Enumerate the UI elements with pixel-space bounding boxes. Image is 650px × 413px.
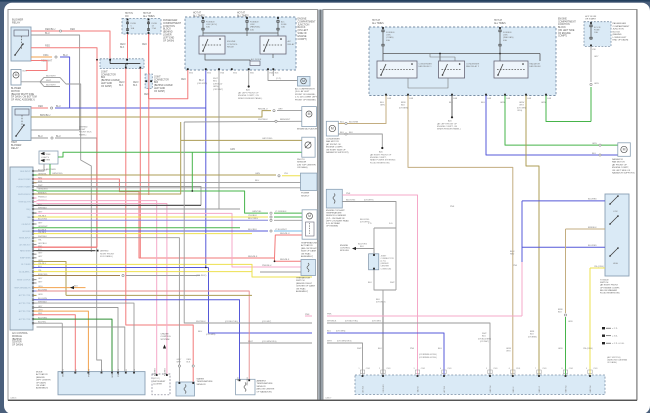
svg-text:CAB06: CAB06 <box>10 397 17 400</box>
svg-text:GRN): GRN) <box>213 86 219 88</box>
svg-text:ON HVAC: ON HVAC <box>36 384 46 387</box>
svg-text:HOT AT: HOT AT <box>193 12 202 15</box>
svg-text:ORG: ORG <box>519 105 524 107</box>
svg-text:THERMISTOR: THERMISTOR <box>296 278 311 280</box>
svg-text:GRN: GRN <box>541 102 546 104</box>
svg-text:C101: C101 <box>421 368 425 370</box>
svg-text:KICK PANEL): KICK PANEL) <box>100 255 113 258</box>
svg-text:BLU: BLU <box>255 180 260 182</box>
svg-text:ACTTR CTRL: ACTTR CTRL <box>19 318 31 321</box>
svg-text:FAN RELAY 2: FAN RELAY 2 <box>466 65 480 68</box>
svg-text:RED/BLK: RED/BLK <box>280 259 290 261</box>
svg-text:INNER FENDER PANEL): INNER FENDER PANEL) <box>238 97 263 100</box>
svg-text:RED: RED <box>181 79 186 81</box>
svg-text:ENGINE: ENGINE <box>227 41 236 43</box>
svg-text:HIGH: HIGH <box>613 263 619 265</box>
svg-text:MODULE: MODULE <box>340 250 350 252</box>
svg-text:ALL TIMES: ALL TIMES <box>237 14 249 17</box>
svg-text:CONDENSER: CONDENSER <box>326 139 340 141</box>
svg-text:M: M <box>308 112 311 116</box>
svg-text:AMBIENT: AMBIENT <box>257 380 267 383</box>
svg-text:BLU: BLU <box>199 80 204 82</box>
svg-text:ORG: ORG <box>43 54 49 57</box>
svg-text:RED: RED <box>144 94 149 96</box>
svg-text:M: M <box>302 79 305 83</box>
svg-text:(OR BRN/BLU/ORG): (OR BRN/BLU/ORG) <box>419 354 437 356</box>
svg-text:FAN RELAY 1: FAN RELAY 1 <box>419 65 433 68</box>
svg-text:GRN/: GRN/ <box>519 102 525 104</box>
svg-text:OF HVAC ASSEMBLY): OF HVAC ASSEMBLY) <box>11 99 35 102</box>
svg-text:GRY: GRY <box>38 222 43 224</box>
svg-text:AC ALARM +: AC ALARM + <box>19 270 31 273</box>
svg-text:BLU: BLU <box>126 368 128 372</box>
svg-text:BLU: BLU <box>380 102 385 104</box>
svg-text:BLOCK: BLOCK <box>613 31 621 33</box>
svg-text:ORG: ORG <box>506 351 511 353</box>
svg-text:BLU: BLU <box>45 32 50 35</box>
svg-text:(BEHIND LOWER: (BEHIND LOWER <box>101 80 120 82</box>
svg-text:BLK/ORG: BLK/ORG <box>358 244 367 246</box>
svg-text:A/C DIODE: A/C DIODE <box>251 58 262 61</box>
svg-text:BLK: BLK <box>558 312 562 314</box>
svg-text:ENGINE: ENGINE <box>558 19 567 21</box>
svg-text:BLK: BLK <box>360 246 364 248</box>
svg-text:GRN/: GRN/ <box>506 348 511 350</box>
svg-text:C101: C101 <box>493 368 497 370</box>
svg-text:LOWER LEFT: LOWER LEFT <box>613 37 628 39</box>
svg-text:CENTER: CENTER <box>12 342 22 344</box>
svg-text:(BELOW RIGHT SIDE: (BELOW RIGHT SIDE <box>11 94 35 96</box>
svg-text:(2.7L): (2.7L) <box>276 78 282 80</box>
svg-text:OF RADIATOR): OF RADIATOR) <box>257 390 272 393</box>
svg-text:WHT: WHT <box>327 341 332 343</box>
svg-text:(C/FAN): (C/FAN) <box>386 36 394 39</box>
svg-text:BLK: BLK <box>376 299 381 301</box>
svg-text:BLK: BLK <box>74 285 79 287</box>
svg-text:M: M <box>331 127 334 131</box>
svg-text:PASSENGER: PASSENGER <box>163 19 178 22</box>
svg-text:ON HVAC: ON HVAC <box>301 252 311 255</box>
svg-text:FAN HI: FAN HI <box>512 386 515 392</box>
svg-text:(OR WHT): (OR WHT) <box>364 199 374 201</box>
svg-text:GRN: GRN <box>558 348 563 350</box>
svg-text:1: 1 <box>359 368 360 370</box>
svg-text:BLK: BLK <box>449 102 454 104</box>
svg-text:PNK: PNK <box>327 313 332 315</box>
svg-text:ENGINE COMPT,: ENGINE COMPT, <box>326 147 343 149</box>
svg-text:= 3.0L: = 3.0L <box>612 336 619 338</box>
svg-text:COMPT): COMPT) <box>558 36 567 38</box>
svg-text:BLK: BLK <box>133 85 138 87</box>
svg-text:LEFT END: LEFT END <box>101 83 112 85</box>
svg-text:BLU: BLU <box>56 105 61 108</box>
svg-text:BLK: BLK <box>368 282 372 284</box>
svg-text:TACHO: TACHO <box>417 386 420 393</box>
svg-text:FAN SW: FAN SW <box>565 385 568 392</box>
svg-text:CONSOLE): CONSOLE) <box>381 268 392 270</box>
svg-text:RADIATOR SUPPORT): RADIATOR SUPPORT) <box>612 172 635 175</box>
svg-text:GRN: GRN <box>594 83 599 85</box>
svg-text:RELAY: RELAY <box>12 21 21 25</box>
svg-text:40A: 40A <box>386 39 390 42</box>
svg-text:FRONT OF ENGINE): FRONT OF ENGINE) <box>295 99 316 101</box>
svg-text:BLU: BLU <box>327 331 332 333</box>
svg-text:PNK: PNK <box>410 348 415 350</box>
svg-text:SYSTEM: SYSTEM <box>161 339 170 341</box>
svg-text:GRY: GRY <box>38 281 43 283</box>
svg-text:ALL TIMES: ALL TIMES <box>193 14 205 17</box>
svg-text:PNK/BLU: PNK/BLU <box>38 196 47 198</box>
svg-text:COMPARTMENT: COMPARTMENT <box>298 20 317 23</box>
svg-text:BLU: BLU <box>56 135 61 138</box>
svg-text:PANEL): PANEL) <box>79 133 87 136</box>
svg-text:A/C: A/C <box>281 21 285 24</box>
svg-text:C101: C101 <box>366 368 370 370</box>
svg-text:= 2.7L: = 2.7L <box>612 328 619 330</box>
svg-text:9: 9 <box>586 368 587 370</box>
svg-text:(OR BLU/: (OR BLU/ <box>213 83 223 85</box>
svg-text:YEL: YEL <box>134 369 136 373</box>
svg-text:BLU/RED: BLU/RED <box>588 245 597 247</box>
svg-text:LEFT CYLINDER HEAD;: LEFT CYLINDER HEAD; <box>326 219 349 222</box>
svg-text:LT GRN/BLK: LT GRN/BLK <box>275 211 287 213</box>
svg-text:FARS SENS: FARS SENS <box>20 249 31 252</box>
svg-text:JUNCTION: JUNCTION <box>613 29 624 31</box>
svg-text:(OR GRN/ORG): (OR GRN/ORG) <box>337 341 352 343</box>
svg-text:HOT AT: HOT AT <box>237 12 246 15</box>
svg-text:M: M <box>308 214 311 218</box>
svg-text:SENS-INPUT: SENS-INPUT <box>19 238 31 240</box>
svg-text:JOINT: JOINT <box>154 77 161 79</box>
svg-text:PNK/BLU: PNK/BLU <box>262 265 272 267</box>
svg-text:GROUND: GROUND <box>22 231 31 233</box>
svg-text:BLW-INPUT: BLW-INPUT <box>20 171 31 173</box>
svg-text:ASSEMBLY): ASSEMBLY) <box>301 255 313 258</box>
svg-text:MODULE: MODULE <box>12 336 22 338</box>
svg-text:FAN LO: FAN LO <box>538 386 541 393</box>
svg-text:ENGINE: ENGINE <box>298 36 307 38</box>
svg-text:GRN: GRN <box>500 102 505 104</box>
svg-text:BLK: BLK <box>349 132 354 134</box>
svg-text:RED/BLU: RED/BLU <box>280 233 290 235</box>
svg-text:RED/: RED/ <box>133 82 139 84</box>
svg-text:CRUISE: CRUISE <box>161 334 170 336</box>
svg-text:(OR BRN/BLU/ORG): (OR BRN/BLU/ORG) <box>419 357 437 359</box>
svg-text:ASSEMBLY): ASSEMBLY) <box>36 387 48 390</box>
svg-text:(AT LEFT FRONT OF: (AT LEFT FRONT OF <box>238 92 259 95</box>
svg-text:BLU: BLU <box>38 135 43 138</box>
svg-text:B03: B03 <box>154 82 159 84</box>
svg-text:2.7L: AT LOWER LEFT: 2.7L: AT LOWER LEFT <box>295 96 318 99</box>
svg-text:WHT/BLK: WHT/BLK <box>196 321 206 323</box>
svg-text:ALL TIMES: ALL TIMES <box>494 22 506 25</box>
svg-text:ACTUATOR: ACTUATOR <box>36 373 48 376</box>
svg-text:PNK/BLU: PNK/BLU <box>155 367 157 376</box>
svg-text:PNK: PNK <box>450 206 455 208</box>
svg-text:7.5A: 7.5A <box>152 27 157 30</box>
svg-text:3.0L: AT REAR: 3.0L: AT REAR <box>326 222 340 225</box>
svg-text:TEMP-ACTTR: TEMP-ACTTR <box>18 200 31 203</box>
svg-text:GRN/YEL: GRN/YEL <box>252 211 262 213</box>
svg-text:GRY/ORG: GRY/ORG <box>262 138 273 140</box>
svg-text:WHT: WHT <box>213 78 219 80</box>
svg-text:BRN: BRN <box>401 102 406 104</box>
svg-text:C101: C101 <box>447 368 451 370</box>
svg-text:(AT RIGHT FRONT OF: (AT RIGHT FRONT OF <box>370 154 392 157</box>
svg-text:RIGHT FRONT: RIGHT FRONT <box>100 253 115 255</box>
svg-text:BLU/BLK: BLU/BLK <box>248 229 258 231</box>
svg-text:7: 7 <box>535 368 536 370</box>
svg-text:GRN: GRN <box>255 173 260 175</box>
svg-text:RELAY: RELAY <box>288 43 296 46</box>
svg-text:BLK/GRN: BLK/GRN <box>349 121 359 123</box>
svg-text:C101: C101 <box>569 368 573 370</box>
svg-text:COMPARTMENT: COMPARTMENT <box>558 20 576 23</box>
svg-text:OF DASH): OF DASH) <box>163 39 174 42</box>
svg-text:CAB07: CAB07 <box>325 397 332 400</box>
svg-text:CONTROL: CONTROL <box>161 336 172 338</box>
svg-text:YEL(ORG): YEL(ORG) <box>594 266 604 268</box>
svg-text:BLK/WHT: BLK/WHT <box>46 75 56 77</box>
svg-text:BLU: BLU <box>237 376 239 380</box>
svg-text:GRN: GRN <box>380 105 385 107</box>
svg-text:RELAY: RELAY <box>227 46 235 49</box>
svg-text:(BELOW RIGHT: (BELOW RIGHT <box>301 248 317 250</box>
svg-text:(OR BLK/YEL): (OR BLK/YEL) <box>345 321 358 323</box>
svg-text:GRY: GRY <box>594 56 599 58</box>
svg-text:M: M <box>15 73 18 77</box>
svg-text:10A: 10A <box>131 27 135 30</box>
svg-text:BLWR-FDBCK: BLWR-FDBCK <box>18 194 31 196</box>
svg-text:SWITCH: SWITCH <box>296 280 305 282</box>
svg-text:WHT/BLK: WHT/BLK <box>327 321 337 323</box>
svg-text:WATER: WATER <box>197 378 205 381</box>
svg-text:YEL/BLK: YEL/BLK <box>248 215 257 217</box>
svg-text:FAN RELAY: FAN RELAY <box>530 65 542 68</box>
svg-text:SENSOR: SENSOR <box>257 386 266 388</box>
svg-text:OF DASH,: OF DASH, <box>36 381 47 384</box>
svg-text:CLUSTER: CLUSTER <box>153 383 162 385</box>
svg-text:HOT AT: HOT AT <box>143 12 152 15</box>
svg-text:BLOCK: BLOCK <box>298 27 306 29</box>
svg-text:BLU/RED: BLU/RED <box>588 199 597 201</box>
svg-text:OR START: OR START <box>585 18 597 21</box>
svg-text:ALL TIMES: ALL TIMES <box>372 22 384 25</box>
svg-text:(A/C SWITCH): (A/C SWITCH) <box>607 356 621 359</box>
svg-text:(BEHIND: (BEHIND <box>163 32 173 34</box>
svg-text:A/C SELECT: A/C SELECT <box>19 243 31 246</box>
svg-text:RED/BLU: RED/BLU <box>45 28 56 31</box>
svg-text:CENTER OF DASH: CENTER OF DASH <box>296 285 315 288</box>
svg-text:WHT: WHT <box>390 282 395 284</box>
svg-text:RED: RED <box>510 254 515 256</box>
svg-text:(BEHIND: (BEHIND <box>36 377 45 379</box>
svg-text:SELECT: SELECT <box>301 196 310 198</box>
svg-text:GRN: GRN <box>230 149 235 151</box>
svg-text:LEFT END: LEFT END <box>154 88 165 90</box>
svg-text:MOTOR: MOTOR <box>11 91 20 93</box>
svg-text:BLU/: BLU/ <box>510 251 515 253</box>
svg-text:(BELOW CENTER: (BELOW CENTER <box>257 389 275 391</box>
svg-text:ACTUATOR: ACTUATOR <box>301 244 313 247</box>
svg-text:(AT LEFT FRONT OF: (AT LEFT FRONT OF <box>437 123 458 126</box>
svg-text:BLK/ORG: BLK/ORG <box>360 219 370 221</box>
svg-text:FAN MOTOR: FAN MOTOR <box>612 161 625 164</box>
svg-text:INTAKE ACTUATOR: INTAKE ACTUATOR <box>297 128 317 131</box>
svg-text:40A: 40A <box>250 28 254 31</box>
svg-text:GRN: GRN <box>38 294 43 296</box>
svg-text:LEFT CENTER: LEFT CENTER <box>36 380 51 382</box>
svg-text:C101: C101 <box>516 368 520 370</box>
svg-text:40A: 40A <box>503 39 507 42</box>
svg-text:(ON LEFT SIDE: (ON LEFT SIDE <box>558 30 575 32</box>
svg-text:(OR WHT): (OR WHT) <box>480 341 489 343</box>
svg-text:ASSEMBLY): ASSEMBLY) <box>296 290 308 293</box>
svg-text:(BEHIND: (BEHIND <box>12 339 22 341</box>
svg-text:PNK/BLK: PNK/BLK <box>89 368 91 377</box>
svg-text:RADIATOR SUPPORT): RADIATOR SUPPORT) <box>326 151 349 154</box>
svg-text:ENGINE: ENGINE <box>298 19 307 21</box>
svg-text:RED/BLU: RED/BLU <box>258 108 268 110</box>
svg-text:ON RIGHT SIDE OF: ON RIGHT SIDE OF <box>326 149 346 151</box>
svg-text:RED: RED <box>38 105 43 108</box>
svg-text:RED: RED <box>142 44 147 46</box>
svg-text:PNK/BLU: PNK/BLU <box>165 367 167 376</box>
svg-text:(OR WHT): (OR WHT) <box>213 89 223 91</box>
svg-text:6: 6 <box>509 368 510 370</box>
svg-text:= 2.7L & 3.0L: = 2.7L & 3.0L <box>612 343 625 345</box>
svg-text:BLU: BLU <box>592 153 597 155</box>
svg-text:LT BLU/WHT: LT BLU/WHT <box>275 229 287 231</box>
svg-text:A/C SW: A/C SW <box>443 386 446 393</box>
svg-text:(OR BRN): (OR BRN) <box>528 336 537 338</box>
svg-text:GROUND: GROUND <box>383 384 385 393</box>
svg-text:ORG): ORG) <box>517 110 523 112</box>
svg-text:ENGINE COMPT, ON: ENGINE COMPT, ON <box>238 95 259 97</box>
svg-text:WHT: WHT <box>46 80 52 82</box>
svg-text:JUNCTION: JUNCTION <box>298 24 310 26</box>
svg-text:FRONT OF ENGINE;: FRONT OF ENGINE; <box>295 94 316 96</box>
svg-text:(OR GRN): (OR GRN) <box>336 331 346 333</box>
svg-text:WHT/BLK: WHT/BLK <box>258 119 268 121</box>
svg-text:C101: C101 <box>386 368 390 370</box>
svg-text:M: M <box>623 148 626 152</box>
svg-text:BLU: BLU <box>63 54 68 57</box>
svg-text:IN-T SENS: IN-T SENS <box>21 264 31 266</box>
svg-text:FAN SW: FAN SW <box>589 385 592 392</box>
svg-text:BLK: BLK <box>23 71 28 73</box>
svg-text:SIDE OF: SIDE OF <box>298 33 308 35</box>
svg-text:B04: B04 <box>101 77 106 79</box>
svg-text:HIGH POWER: HIGH POWER <box>18 179 31 181</box>
svg-text:A/C SW: A/C SW <box>362 386 365 393</box>
svg-text:BRN: BRN <box>530 331 535 333</box>
svg-text:BLK: BLK <box>378 348 382 350</box>
svg-text:CONNECTOR: CONNECTOR <box>154 79 169 81</box>
svg-text:MODE: MODE <box>36 372 43 374</box>
svg-text:OF DASH): OF DASH) <box>154 90 165 93</box>
svg-text:BLU: BLU <box>482 336 486 338</box>
svg-text:(AT RIGHT FRONT: (AT RIGHT FRONT <box>600 284 619 287</box>
svg-text:SIDE OF DASH: SIDE OF DASH <box>301 250 317 253</box>
svg-text:BLK/ORG: BLK/ORG <box>346 199 356 201</box>
svg-text:(BEHIND: (BEHIND <box>100 251 109 253</box>
svg-text:(3.0L: AT LEFT: (3.0L: AT LEFT <box>295 90 310 93</box>
svg-text:GRN/WHT: GRN/WHT <box>112 368 114 378</box>
svg-text:5: 5 <box>486 368 487 370</box>
svg-text:RED: RED <box>45 45 50 48</box>
svg-text:(OR GRY): (OR GRY) <box>262 321 272 323</box>
svg-text:RED: RED <box>76 368 78 373</box>
svg-text:PNK/BLK: PNK/BLK <box>118 368 120 377</box>
svg-text:COMPARTMENT: COMPARTMENT <box>163 22 182 25</box>
svg-text:LOWER: LOWER <box>163 35 172 37</box>
svg-text:ACTTR CTRL: ACTTR CTRL <box>19 294 31 297</box>
svg-text:(BEHIND LOWER: (BEHIND LOWER <box>154 85 173 87</box>
svg-text:10A: 10A <box>281 26 285 29</box>
svg-text:RELAY: RELAY <box>11 147 19 150</box>
svg-text:(BEHIND: (BEHIND <box>613 34 622 36</box>
svg-text:(AT FRONT OF: (AT FRONT OF <box>326 143 341 146</box>
svg-text:BLK: BLK <box>119 85 124 87</box>
svg-text:OF ENGINE): OF ENGINE) <box>326 226 338 228</box>
svg-text:TEMPERATURE: TEMPERATURE <box>197 380 214 383</box>
svg-text:BRN/BLU: BRN/BLU <box>40 114 51 117</box>
svg-text:BLK/ORG: BLK/ORG <box>38 169 47 171</box>
svg-text:A/C COMPRESSOR: A/C COMPRESSOR <box>295 88 315 91</box>
svg-text:CONTROL: CONTROL <box>227 44 238 46</box>
svg-text:LOW: LOW <box>613 211 618 213</box>
svg-text:CONNECTOR: CONNECTOR <box>101 74 116 76</box>
svg-text:BLK: BLK <box>401 105 406 107</box>
svg-text:BLU: BLU <box>340 121 345 123</box>
svg-text:ACTTR CTRL: ACTTR CTRL <box>19 302 31 305</box>
svg-text:JUNCTION: JUNCTION <box>558 24 570 26</box>
svg-text:HOT IN ON: HOT IN ON <box>585 16 597 18</box>
svg-text:JUNCTION: JUNCTION <box>163 26 175 28</box>
svg-text:INNER FENDER PANEL): INNER FENDER PANEL) <box>437 128 461 131</box>
svg-text:FAN SW: FAN SW <box>489 385 492 392</box>
svg-text:BLOCK: BLOCK <box>163 29 171 31</box>
svg-text:WHT: WHT <box>248 341 254 343</box>
svg-text:LABELING DIAGRAM: LABELING DIAGRAM <box>607 359 627 362</box>
svg-text:BLU/ORG: BLU/ORG <box>248 218 258 220</box>
svg-text:RED/BLK: RED/BLK <box>248 256 258 258</box>
svg-text:JOINT: JOINT <box>101 72 108 74</box>
svg-text:(ON LEFT: (ON LEFT <box>298 30 309 32</box>
svg-text:BLU: BLU <box>213 81 218 83</box>
svg-text:C101: C101 <box>542 368 546 370</box>
svg-text:BLU: BLU <box>438 348 442 350</box>
svg-text:FLUID RESERVOIR): FLUID RESERVOIR) <box>370 162 390 164</box>
svg-text:(BY I/C): (BY I/C) <box>153 378 160 380</box>
svg-text:BLU: BLU <box>340 132 345 134</box>
svg-text:BLK/WHT: BLK/WHT <box>46 85 56 87</box>
svg-text:COMPARTMENT: COMPARTMENT <box>613 25 631 28</box>
svg-text:COMPT): COMPT) <box>298 39 307 41</box>
svg-text:SENSOR: SENSOR <box>197 384 206 386</box>
svg-text:GRN: GRN <box>568 321 573 323</box>
svg-text:BLU: BLU <box>481 102 486 104</box>
svg-text:OF DASH, ON BOTTOM: OF DASH, ON BOTTOM <box>11 96 37 99</box>
svg-text:BRN/BLK: BRN/BLK <box>588 227 597 229</box>
svg-text:END OF DASH): END OF DASH) <box>613 39 629 42</box>
svg-text:A/C CONTROL: A/C CONTROL <box>12 332 29 335</box>
svg-text:LEFT END: LEFT END <box>163 37 175 39</box>
svg-text:NEAR POWER STEERING: NEAR POWER STEERING <box>370 159 396 162</box>
svg-text:OF ENGINE: OF ENGINE <box>558 33 571 35</box>
svg-text:(AT FRONT OF: (AT FRONT OF <box>612 163 627 166</box>
